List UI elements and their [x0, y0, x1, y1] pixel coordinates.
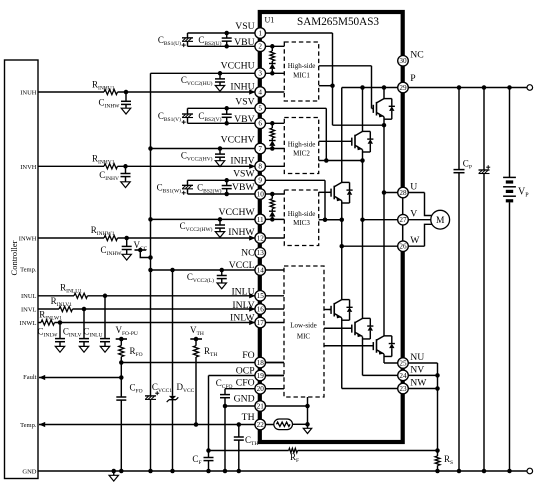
wire OCP stub inside	[265, 375, 284, 377]
node RTH-TH	[194, 422, 199, 427]
node CVCC2HU	[218, 71, 223, 76]
svg-text:Fault: Fault	[23, 374, 37, 381]
node V-P	[360, 85, 365, 90]
capacitor CFO	[116, 396, 126, 398]
svg-text:NC: NC	[241, 248, 254, 259]
svg-text:VSV: VSV	[235, 97, 254, 108]
svg-text:MIC3: MIC3	[293, 219, 310, 227]
VFO-PU supply terminal	[116, 338, 127, 340]
wire low-side MIC gates	[324, 309, 331, 311]
pin 19 OCP	[255, 370, 266, 381]
node CVCC1-gnd	[148, 469, 153, 474]
pin 12 INHW	[255, 233, 266, 244]
ground rail symbol	[113, 471, 115, 475]
ground CINHV	[121, 182, 130, 188]
wire FO	[121, 362, 284, 364]
svg-text:18: 18	[257, 359, 265, 367]
resistor bootstrap U	[271, 46, 273, 51]
svg-text:U: U	[410, 182, 417, 193]
node P-Cel	[482, 85, 487, 90]
wire VBU rail	[188, 45, 285, 47]
svg-text:VBW: VBW	[232, 182, 255, 193]
svg-text:VCCHU: VCCHU	[221, 61, 255, 72]
svg-text:29: 29	[399, 84, 407, 92]
wire VCCHV	[151, 148, 285, 150]
ground CINHW	[122, 254, 131, 260]
svg-text:28: 28	[399, 189, 407, 197]
svg-text:24: 24	[399, 372, 407, 380]
svg-text:Low-side: Low-side	[290, 322, 316, 330]
node INUL-C	[103, 294, 108, 299]
node CVCC2HV	[218, 146, 223, 151]
arrow into INHU pin4	[249, 89, 255, 94]
svg-text:17: 17	[257, 319, 265, 327]
wire VSU rail	[188, 32, 333, 34]
resistor RINHW1	[104, 235, 118, 240]
arrow into INLU pin15	[249, 293, 255, 298]
transistor low-side U IGBT	[329, 309, 331, 311]
svg-text:VBV: VBV	[234, 114, 254, 125]
svg-text:U1: U1	[265, 16, 275, 25]
thermistor	[274, 419, 293, 430]
capacitor CBS1(W) polarized	[187, 180, 189, 185]
resistor RFO	[120, 339, 122, 346]
node CBS2(U) top	[224, 31, 229, 36]
node VSV-MIC2	[324, 158, 329, 163]
wire therm vertical	[307, 397, 309, 428]
wire VSU inside	[332, 33, 334, 125]
pin 10 VBW	[255, 189, 266, 200]
wire CFO stub inside	[265, 388, 284, 390]
capacitor electrolytic	[479, 169, 490, 171]
wire VSV rail	[188, 107, 327, 109]
capacitor CBS2(V)	[226, 108, 228, 114]
pin 5 VSV	[255, 103, 266, 114]
terminal GND open	[527, 468, 533, 474]
node VBW-chain	[270, 192, 275, 197]
svg-text:INWL: INWL	[20, 320, 37, 327]
pin 26 W	[398, 241, 409, 252]
capacitor CVCC1	[145, 395, 156, 397]
arrow into controller Temp	[39, 422, 45, 427]
node CFO-gnd	[119, 469, 124, 474]
svg-text:INVL: INVL	[21, 306, 37, 313]
wire VBW rail	[188, 193, 285, 195]
svg-text:M: M	[436, 216, 445, 226]
wire MIC1 gate	[319, 65, 372, 67]
node CBS2(W) top	[224, 178, 229, 183]
wire NU	[384, 362, 438, 364]
svg-text:1: 1	[258, 29, 262, 37]
capacitor CINHV	[125, 166, 127, 173]
wire VSV inside	[325, 108, 327, 160]
capacitor CVCC2(HV)	[219, 149, 221, 155]
transistor low-side W IGBT	[372, 345, 374, 347]
pin 17 INLW	[255, 317, 266, 328]
node W-rail	[340, 244, 345, 249]
wire GND rail	[38, 470, 527, 472]
svg-text:CFO: CFO	[236, 377, 255, 388]
capacitor CINLV	[83, 309, 85, 339]
svg-text:TH: TH	[242, 412, 255, 423]
ground inside module	[303, 428, 311, 433]
svg-text:NU: NU	[410, 352, 424, 363]
svg-text:VCCL: VCCL	[229, 260, 255, 271]
arrow into INLW pin17	[249, 320, 255, 325]
svg-text:INWH: INWH	[19, 235, 37, 242]
node RS-gnd	[435, 469, 440, 474]
node bus-VCCHV	[148, 146, 153, 151]
arrow into controller Fault	[39, 375, 45, 380]
pin 28 U	[398, 187, 409, 198]
pin 7 VCCHV	[255, 143, 266, 154]
pin 9 VSW	[255, 175, 266, 186]
VTH supply terminal	[190, 338, 202, 340]
pin 15 INLU	[255, 291, 266, 302]
wire MIC1 source stub	[319, 85, 333, 87]
node U-P	[382, 85, 387, 90]
node CBS2(U) bottom	[224, 44, 229, 49]
pin 29 P	[398, 82, 409, 93]
wire MIC3 source stub	[319, 219, 325, 221]
ground CVCC2(HU)	[215, 86, 224, 92]
node FO	[119, 360, 124, 365]
wire MIC2 gate	[319, 140, 352, 142]
node INVH-C	[123, 164, 128, 169]
pin 3 VCCHU	[255, 68, 266, 79]
svg-text:9: 9	[258, 177, 262, 185]
node NV-bus	[435, 373, 440, 378]
node P-Cp	[457, 85, 462, 90]
zener diode DVCC	[169, 396, 176, 400]
capacitor CCFO	[224, 389, 226, 395]
resistor bootstrap W	[271, 194, 273, 199]
wire GND pin21	[225, 405, 308, 407]
wire VCCL	[151, 269, 285, 271]
svg-text:VSW: VSW	[233, 169, 255, 180]
svg-text:19: 19	[257, 372, 265, 380]
node INWL-C	[58, 320, 63, 325]
svg-text:2: 2	[258, 43, 262, 51]
node CBS2(W) bottom	[224, 192, 229, 197]
wire INWH	[38, 237, 104, 239]
svg-text:27: 27	[399, 216, 407, 224]
node DVCC-top	[170, 268, 175, 273]
svg-text:21: 21	[257, 402, 265, 410]
ground CVCC2L	[217, 283, 226, 289]
capacitor CBS2(U)	[226, 33, 228, 38]
svg-text:Temp.: Temp.	[20, 267, 37, 274]
wire VBV rail	[188, 122, 285, 124]
capacitor CINHW	[126, 238, 128, 246]
svg-text:MIC2: MIC2	[293, 150, 310, 158]
wire VCCH bus vertical	[150, 73, 152, 396]
wire DVCC branch	[172, 270, 174, 396]
transistor low-side V IGBT	[350, 327, 352, 329]
svg-text:NC: NC	[410, 50, 423, 61]
svg-text:P: P	[410, 73, 415, 84]
wire CFO	[225, 388, 284, 390]
svg-text:16: 16	[257, 305, 265, 313]
capacitor CVCC2(HU)	[219, 73, 221, 79]
arrow into INHV pin8	[249, 164, 255, 169]
node INUH-C	[124, 90, 129, 95]
wire Vp branch	[509, 88, 511, 178]
node U emitter	[382, 123, 387, 128]
svg-text:VCCHW: VCCHW	[219, 207, 256, 218]
node OCP-RF	[206, 448, 211, 453]
svg-text:14: 14	[257, 266, 265, 274]
svg-text:GND: GND	[234, 394, 255, 405]
node CVCC2HW	[218, 217, 223, 222]
wire FO-fault vertical	[120, 363, 122, 398]
node U-rail	[382, 190, 387, 195]
wire VSW inside	[324, 180, 326, 219]
node CVCC2L	[220, 268, 225, 273]
capacitor CINLW	[59, 323, 61, 339]
svg-text:VCCHV: VCCHV	[221, 135, 255, 146]
ground CINHU	[121, 108, 130, 114]
pin 2 VBU	[255, 41, 266, 52]
node W emitter	[340, 218, 345, 223]
svg-text:20: 20	[257, 385, 265, 393]
ground CINLV	[79, 346, 88, 352]
svg-text:25: 25	[399, 359, 407, 367]
node RF-bus	[435, 448, 440, 453]
svg-text:INUL: INUL	[21, 293, 37, 300]
node Vp-gnd	[507, 469, 512, 474]
svg-text:22: 22	[257, 421, 265, 429]
svg-text:NW: NW	[410, 378, 427, 389]
svg-text:15: 15	[257, 292, 265, 300]
capacitor CVCC2(HW)	[219, 219, 221, 225]
low-side MIC box	[284, 266, 324, 397]
svg-text:INLW: INLW	[230, 313, 255, 324]
node gnd-inside	[305, 404, 310, 409]
node DVCC-gnd	[170, 469, 175, 474]
capacitor CBS1(U) polarized	[187, 33, 189, 38]
svg-text:23: 23	[399, 385, 407, 393]
wire W output	[342, 224, 432, 246]
resistor RS	[435, 456, 440, 466]
ground CINLW	[55, 346, 64, 352]
node NW-bus	[435, 386, 440, 391]
pin 18 FO	[255, 357, 266, 368]
node Cel-gnd	[482, 469, 487, 474]
node CBS2(V) bottom	[224, 121, 229, 126]
wire INUH	[38, 91, 104, 93]
svg-text:VSU: VSU	[235, 21, 254, 32]
capacitor CBS2(W)	[226, 180, 228, 185]
node CTH-gnd	[237, 469, 242, 474]
svg-text:GND: GND	[22, 469, 36, 476]
capacitor CVCC2(L)	[221, 270, 223, 276]
svg-text:11: 11	[257, 216, 264, 224]
pin 4 INHU	[255, 87, 266, 98]
node VBV-chain	[270, 121, 275, 126]
pin 25 NU	[398, 358, 409, 369]
svg-text:NV: NV	[410, 364, 424, 375]
node Cp-gnd	[457, 469, 462, 474]
svg-text:3: 3	[258, 70, 262, 78]
capacitor CINLU	[104, 296, 106, 339]
node GND21-rail	[223, 469, 228, 474]
wire W column	[341, 88, 343, 183]
pin 6 VBV	[255, 118, 266, 129]
wire FO stub inside	[265, 362, 284, 364]
svg-text:INLV: INLV	[232, 300, 254, 311]
node VCCHW-chain	[270, 217, 275, 222]
wire U column	[383, 88, 385, 99]
wire VSW rail	[188, 179, 326, 181]
wire thermistor right	[293, 423, 308, 425]
wire V output	[363, 219, 431, 221]
transistor high-side V IGBT	[350, 140, 352, 142]
resistor RINLU1	[74, 293, 88, 298]
wire P rail	[342, 87, 527, 89]
high-side MIC2 box	[284, 118, 318, 174]
svg-text:MIC: MIC	[297, 333, 311, 341]
wire NV	[363, 374, 438, 376]
wire INUL	[38, 295, 74, 297]
wire VCCHW	[151, 218, 285, 220]
node VSU-MIC1	[330, 83, 335, 88]
resistor RINLW1	[41, 320, 55, 325]
wire MIC3 gate	[319, 191, 331, 193]
node VSW-MIC3	[323, 218, 328, 223]
controller block	[5, 60, 39, 479]
node CTH	[237, 422, 242, 427]
svg-text:13: 13	[257, 249, 265, 257]
node CBS2(V) top	[224, 106, 229, 111]
capacitor CBS1(V) polarized	[187, 108, 189, 114]
resistor RINLV1	[59, 306, 73, 311]
pin 24 NV	[398, 370, 409, 381]
wire Cp branch	[458, 88, 460, 170]
node VCCHU-chain	[270, 71, 275, 76]
svg-text:10: 10	[257, 190, 265, 198]
svg-text:INUH: INUH	[20, 89, 37, 96]
wire RF line	[209, 450, 289, 452]
diode bootstrap U	[271, 61, 273, 64]
wire TH/Temp	[39, 424, 274, 426]
terminal P open	[527, 85, 533, 91]
wire U output	[384, 193, 432, 216]
svg-text:7: 7	[258, 145, 262, 153]
wire INVH	[38, 165, 104, 167]
arrow into INHW pin12	[249, 235, 255, 240]
svg-text:5: 5	[258, 105, 262, 113]
wire INVL	[38, 308, 59, 310]
ground CINLU	[100, 346, 109, 352]
capacitor CINHU	[125, 92, 127, 101]
pin 21 GND	[255, 401, 266, 412]
svg-text:V: V	[410, 209, 417, 220]
pin 14 VCCL	[255, 265, 266, 276]
pin 16 INLV	[255, 304, 266, 315]
node VCC-bus	[148, 255, 153, 260]
pin 11 VCCHW	[255, 214, 266, 225]
pin 20 CFO	[255, 383, 266, 394]
svg-text:Temp.: Temp.	[20, 422, 37, 429]
svg-text:INHV: INHV	[230, 156, 254, 167]
arrow into INLV pin16	[249, 306, 255, 311]
ground CVCC2(HW)	[215, 232, 224, 238]
svg-text:8: 8	[258, 163, 262, 171]
module U1 outline	[260, 12, 403, 442]
node bus-VCCHW	[148, 217, 153, 222]
svg-text:INHW: INHW	[228, 227, 255, 238]
capacitor CF	[204, 457, 214, 459]
svg-text:Controller: Controller	[9, 240, 19, 275]
svg-text:26: 26	[399, 243, 407, 251]
capacitor CP	[454, 169, 465, 171]
pin 1 VSU	[255, 28, 266, 39]
node GND21	[223, 404, 228, 409]
wire electrolytic branch	[483, 88, 485, 171]
VCC supply terminal	[135, 249, 147, 251]
resistor RTH	[195, 339, 197, 346]
node INVL-C	[82, 307, 87, 312]
node CF-gnd	[206, 469, 211, 474]
svg-text:High-side: High-side	[288, 210, 316, 218]
wire MIC2 source stub	[319, 160, 327, 162]
resistor bootstrap V	[271, 123, 273, 128]
svg-text:High-side: High-side	[288, 62, 316, 70]
svg-text:4: 4	[258, 88, 262, 96]
ground CVCC2(HV)	[215, 161, 224, 167]
pin 22 TH	[255, 419, 266, 430]
node VCCHV-chain	[270, 146, 275, 151]
svg-text:OCP: OCP	[236, 366, 255, 377]
node INWH-C	[124, 236, 129, 241]
wire VCC to bus	[140, 250, 150, 258]
svg-text:High-side: High-side	[288, 140, 316, 148]
node bus-VCCL	[148, 268, 153, 273]
node Fault	[119, 375, 124, 380]
svg-text:INVH: INVH	[20, 164, 37, 171]
diode bootstrap W	[271, 209, 273, 212]
battery VP	[503, 176, 516, 178]
high-side MIC3 box	[284, 190, 318, 246]
svg-text:W: W	[410, 235, 420, 246]
node gnd-symbol	[112, 469, 117, 474]
transistor high-side W IGBT	[329, 191, 331, 193]
capacitor CTH	[238, 425, 240, 438]
wire OCP	[209, 375, 285, 377]
svg-text:INLU: INLU	[231, 287, 254, 298]
motor M	[431, 210, 450, 229]
wire GND vertical	[224, 406, 226, 471]
svg-text:SAM265M50AS3: SAM265M50AS3	[297, 16, 379, 28]
node V emitter	[360, 158, 365, 163]
node P-Vp	[507, 85, 512, 90]
high-side MIC1 box	[284, 42, 318, 101]
pin 23 NW	[398, 383, 409, 394]
svg-text:30: 30	[399, 57, 407, 65]
wire INWL	[38, 322, 41, 324]
resistor RINHV1	[104, 164, 118, 169]
svg-text:6: 6	[258, 120, 262, 128]
wire OCP vertical	[208, 376, 210, 458]
wire NW	[342, 388, 438, 390]
node VBU-chain	[270, 44, 275, 49]
pin 8 INHV	[255, 161, 266, 172]
svg-text:VBU: VBU	[234, 37, 254, 48]
wire N bus	[437, 363, 439, 456]
wire VCCHU	[151, 72, 285, 74]
svg-text:MIC1: MIC1	[293, 72, 310, 80]
